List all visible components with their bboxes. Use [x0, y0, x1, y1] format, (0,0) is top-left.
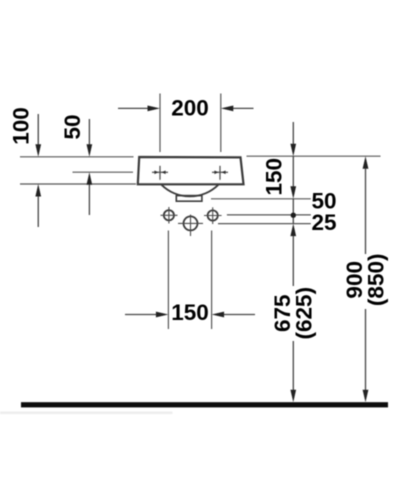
tap hole cross right — [212, 166, 228, 180]
svg-text:100: 100 — [9, 107, 34, 145]
dimension 150 bottom extension line left — [167, 231, 169, 330]
crosshair of fixing hole left — [161, 207, 178, 224]
floor line — [21, 402, 388, 407]
dimension 25 dot marker on L2 — [291, 213, 296, 218]
dimension 200 extension line left — [159, 94, 161, 153]
dimension 900 up arrowhead at rim — [363, 156, 369, 169]
fixing hole level line L2 right — [227, 214, 311, 216]
svg-text:(850): (850) — [363, 254, 388, 307]
dimension 150 bottom left arrow — [125, 312, 168, 318]
dimension 900 upper line segment — [365, 169, 367, 255]
drain circle center — [184, 216, 198, 230]
tap hole level line left segment — [73, 171, 134, 173]
label 900 (850) rotated — [342, 254, 389, 307]
dimension 150 mid segment — [292, 156, 294, 186]
rim level line right segment — [247, 155, 381, 157]
crosshair of drain circle — [178, 215, 203, 237]
drain center level line L3 right — [218, 223, 311, 225]
svg-text:150: 150 — [171, 300, 209, 325]
dimension 150 bottom down arrowhead — [290, 186, 296, 199]
drain fitting rectangle — [176, 196, 202, 202]
basin bottom level line left segment — [20, 183, 136, 185]
crosshair of fixing hole right — [204, 207, 222, 224]
dimension 100 up arrow — [35, 184, 41, 227]
dimension 150 right vertical line — [292, 122, 294, 144]
dimension 150 top down arrowhead — [290, 144, 296, 157]
rim level line left segment — [20, 156, 134, 158]
dimension 200 extension line right — [220, 94, 222, 153]
dimension 675 down arrowhead at floor — [290, 390, 296, 403]
segment L1 to L3 on dim line — [292, 199, 294, 224]
dimension 675 lower line segment — [292, 341, 294, 391]
bowl arc — [162, 185, 219, 197]
svg-text:150: 150 — [262, 158, 287, 196]
svg-text:25: 25 — [312, 210, 337, 235]
basin body outline (front view) — [138, 157, 244, 184]
svg-text:50: 50 — [60, 114, 85, 139]
label 675 (625) rotated — [270, 287, 317, 340]
dimension 200 right arrow — [221, 106, 254, 112]
dimension 100 down arrow — [35, 114, 41, 157]
dimension 50 down arrow — [87, 119, 93, 157]
drain fitting level line L1 right — [211, 198, 311, 200]
dimension 900 down arrowhead at floor — [363, 390, 369, 403]
dimension 675 upper line segment — [292, 236, 294, 286]
dimension 150 bottom extension line right — [211, 231, 213, 330]
dimension 150 bottom right arrow — [212, 312, 255, 318]
dimension 675 up arrowhead at drain level — [290, 224, 296, 237]
fixing hole circle right — [208, 210, 218, 220]
fixing hole circle left — [164, 210, 174, 220]
dimension 200 left arrow — [118, 106, 160, 112]
svg-text:200: 200 — [171, 95, 209, 120]
faint wall skirting line — [0, 412, 173, 415]
dimension 900 lower line segment — [365, 309, 367, 391]
tap hole cross left — [152, 166, 168, 180]
dimension 50 up arrow — [87, 172, 93, 215]
svg-text:(625): (625) — [291, 287, 316, 340]
